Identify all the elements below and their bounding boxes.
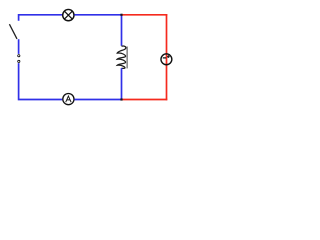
plus mark (167, 55, 170, 58)
switch contact (lower) (17, 60, 20, 63)
power supply M1 (circle with polarity marks) (161, 54, 172, 65)
wire: top rail right segment (74, 14, 121, 16)
inductor L2 coil (117, 46, 126, 68)
switch SW1 lever (open) (9, 24, 17, 39)
wire (red): top rail junction A to right corner (122, 14, 168, 16)
wire (red): bottom rail right corner to junction B (122, 99, 168, 101)
ammeter A1 (63, 94, 74, 105)
lamp L1 (63, 9, 74, 20)
junction A (top) (120, 14, 122, 16)
switch contact (upper) (17, 54, 20, 57)
inductor core bar (126, 47, 128, 69)
junction B (bottom) (120, 98, 122, 100)
wire: inductor top lead (121, 15, 123, 46)
minus mark (163, 57, 166, 58)
wire: inductor bottom lead (121, 68, 123, 99)
wire: switch top lead + top rail left segment (19, 15, 63, 21)
wire: bottom rail mid segment (74, 99, 121, 101)
wire: left rail lower + bottom rail left segment (19, 63, 63, 99)
wire (red): right rail through meter (166, 14, 168, 100)
wire: switch lever to upper contact (18, 39, 20, 54)
